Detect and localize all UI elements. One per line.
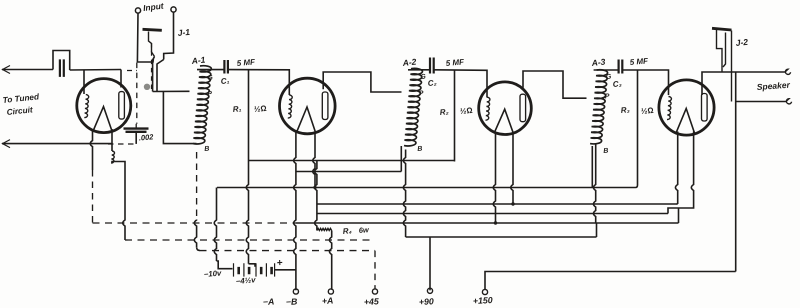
- svg-text:+A: +A: [322, 295, 334, 306]
- svg-text:½Ω: ½Ω: [253, 104, 267, 114]
- wire B7 right up: [596, 223, 598, 237]
- wire V4 plate up: [702, 72, 713, 95]
- wire rheostat to drop: [112, 162, 125, 165]
- capacitor .002 plates: [124, 129, 149, 132]
- svg-text:P: P: [207, 91, 213, 98]
- wire B+ down from jack: [735, 72, 737, 272]
- wire jack lead A: [153, 57, 155, 92]
- junction dot leg2V2-B3: [313, 186, 316, 189]
- svg-text:C₃: C₃: [612, 79, 622, 89]
- wire battery left bend: [217, 261, 233, 269]
- wire input2 down: [164, 12, 174, 60]
- svg-text:B: B: [603, 148, 609, 155]
- wire V4 leg1 end: [676, 203, 678, 205]
- wire speaker bottom: [736, 101, 787, 103]
- speaker terminal 2: [786, 99, 792, 104]
- wire antenna line: [2, 69, 53, 71]
- wire jack to A1 P: [153, 90, 190, 92]
- svg-text:5 MF: 5 MF: [629, 56, 649, 67]
- bus B7 B+90: [406, 236, 597, 238]
- bus B6 solid part: [296, 222, 679, 224]
- wire grid drop: [83, 70, 85, 94]
- bus S1 filament: [249, 160, 455, 162]
- wire V1 leg1: [90, 129, 92, 170]
- wire V2 leg2: [313, 132, 315, 188]
- svg-text:6w: 6w: [358, 225, 370, 235]
- wire B6 end up: [678, 209, 680, 224]
- wire A2 primary drop: [400, 146, 402, 172]
- wire A3 top to C3: [594, 69, 619, 71]
- wire battery left feeder: [214, 188, 216, 262]
- grid of V1: [84, 95, 88, 118]
- capacitor C3 plates: [619, 60, 623, 74]
- wire A1 B dashed drop: [196, 152, 198, 220]
- capacitor box left side: [53, 51, 70, 71]
- tube circle V1: [77, 79, 131, 133]
- wire A2 top to C2: [408, 69, 430, 71]
- dashed wire .002 to leg: [108, 143, 136, 145]
- arrow left on antenna line: [3, 66, 11, 74]
- dashed D2: [125, 239, 375, 241]
- jack J-1 spring contact: [149, 32, 155, 57]
- dashed D3 +45 feed: [200, 250, 376, 252]
- svg-text:½Ω: ½Ω: [640, 106, 654, 116]
- wire input1 down: [137, 13, 153, 62]
- wire C3 to V4 grid: [622, 70, 668, 95]
- svg-text:B: B: [204, 146, 210, 153]
- jack J-1 dashed guide: [151, 43, 153, 93]
- wire A3 primary drop: [591, 146, 593, 188]
- capacitor C1 plates: [224, 60, 228, 74]
- svg-text:5 MF: 5 MF: [445, 57, 465, 68]
- wire -B drop battery plus: [276, 269, 296, 271]
- svg-text:G: G: [420, 73, 427, 80]
- wire A1B corner into D3: [197, 247, 200, 250]
- wire C1 to V2 grid: [228, 70, 289, 95]
- svg-text:Speaker: Speaker: [756, 80, 790, 92]
- terminal -A-B: [293, 289, 298, 294]
- wire V1 leg2: [111, 129, 113, 151]
- plate of V3: [520, 94, 526, 122]
- wire stub to .002: [135, 124, 137, 129]
- junction dot leg2V3-B4: [511, 202, 514, 205]
- svg-text:R₄: R₄: [342, 226, 352, 236]
- plate of V1: [119, 92, 125, 120]
- bus S2: [296, 171, 401, 173]
- jack J-2 spring contact: [717, 30, 723, 72]
- jack J-1 top bar: [143, 29, 162, 30]
- wire V1 leg1 dashed drop: [92, 170, 94, 223]
- wire .002 stub: [135, 132, 137, 144]
- dashed shield stub: [127, 70, 137, 72]
- svg-text:J-1: J-1: [177, 27, 191, 38]
- battery plus lead: [275, 269, 276, 271]
- resistor R2 wire: [454, 70, 456, 162]
- resistor R4: [317, 228, 332, 230]
- wire V3 leg1: [493, 132, 495, 223]
- wire +A drop: [329, 231, 331, 290]
- wire drop to A1 B: [163, 92, 196, 144]
- plate of V4: [702, 94, 708, 122]
- svg-text:C₁: C₁: [220, 76, 230, 86]
- battery long plates: [234, 263, 275, 276]
- terminal +150: [482, 289, 487, 294]
- bus B3 grid return: [217, 187, 636, 189]
- wire C2 to V3 grid: [434, 70, 487, 98]
- wire +150 up: [485, 272, 736, 290]
- svg-text:Circuit: Circuit: [6, 105, 33, 117]
- wire V4 leg2: [668, 132, 694, 214]
- svg-text:P: P: [605, 93, 611, 100]
- filament of V3: [495, 109, 514, 132]
- svg-text:+90: +90: [419, 296, 435, 307]
- svg-text:Input: Input: [143, 0, 166, 13]
- capacitor C2 plates: [430, 58, 434, 74]
- tube circle V3: [479, 82, 532, 135]
- rheostat on V1 filament: [111, 151, 114, 163]
- svg-text:G: G: [207, 74, 214, 81]
- plate of V2: [322, 92, 328, 120]
- svg-text:G: G: [606, 73, 613, 80]
- input terminal 1: [135, 8, 140, 13]
- svg-text:P: P: [419, 90, 425, 97]
- wire lower left line: [2, 143, 112, 145]
- dashed shield vertical: [136, 63, 138, 124]
- svg-text:A-3: A-3: [590, 57, 606, 69]
- resistor R1 wire: [246, 70, 248, 264]
- resistor R3 wire: [636, 70, 638, 188]
- svg-text:½Ω: ½Ω: [459, 106, 473, 116]
- svg-text:+150: +150: [473, 295, 493, 306]
- svg-text:5 MF: 5 MF: [236, 57, 256, 68]
- wire R1 to bias tap: [249, 264, 256, 267]
- wire V3 plate up: [523, 71, 587, 98]
- svg-text:R₂: R₂: [439, 107, 449, 117]
- grid of V2: [288, 95, 292, 118]
- svg-text:−4½v: −4½v: [235, 275, 256, 286]
- svg-text:−A: −A: [263, 296, 275, 307]
- filament of V4: [676, 109, 695, 134]
- filament of V1: [93, 107, 112, 131]
- wire V2 leg1 to -B: [294, 132, 296, 291]
- bus B4 filament: [317, 203, 676, 205]
- jack J-2 top bar: [712, 28, 732, 30]
- wire V4 leg1: [675, 132, 677, 205]
- junction dot leg1V3-B6: [494, 221, 497, 224]
- wire A2 B drop: [403, 150, 405, 238]
- coil A-2: [404, 68, 422, 146]
- wire A1 top to C1: [197, 69, 224, 71]
- svg-text:−10v: −10v: [203, 268, 222, 279]
- svg-text:.002: .002: [138, 132, 154, 142]
- svg-text:+: +: [277, 258, 284, 269]
- terminal +A: [328, 289, 333, 294]
- svg-text:C₂: C₂: [427, 78, 437, 88]
- wire A3 B drop: [593, 144, 595, 223]
- jack J-2 sleeve: [731, 31, 733, 102]
- svg-text:A-2: A-2: [401, 57, 417, 69]
- speaker terminal 1: [785, 69, 791, 74]
- grid of V4: [667, 97, 671, 120]
- svg-text:B: B: [417, 146, 423, 153]
- wire drop x125: [123, 164, 125, 240]
- coil A-3: [590, 70, 608, 144]
- arrow left lower line: [3, 140, 11, 148]
- grid of V3: [486, 97, 490, 120]
- svg-text:J-2: J-2: [735, 37, 749, 48]
- bus B5 filament: [317, 213, 668, 215]
- svg-text:−B: −B: [286, 296, 299, 307]
- wire V3 leg2: [511, 132, 513, 204]
- wire V1 plate to top: [120, 70, 122, 88]
- tube circle V2: [280, 78, 336, 134]
- svg-text:To Tuned: To Tuned: [2, 92, 40, 105]
- jack J-2 second contact: [723, 33, 726, 68]
- svg-text:R₃: R₃: [620, 105, 630, 115]
- wire cap to grid corner: [70, 69, 121, 72]
- bus B6 dashed part: [93, 222, 297, 224]
- coil A-1: [193, 66, 211, 144]
- wire +90 drop: [429, 237, 431, 290]
- filament of V2: [297, 107, 316, 132]
- input terminal 2: [171, 7, 176, 12]
- svg-text:A-1: A-1: [190, 55, 206, 67]
- tube circle V4: [659, 80, 714, 135]
- capacitor C-ant plates: [60, 59, 64, 77]
- wire +45 dashed drop: [374, 251, 376, 290]
- svg-text:+45: +45: [364, 296, 380, 307]
- wire V2 plate up: [323, 72, 401, 92]
- terminal +45: [372, 289, 377, 294]
- svg-text:R₁: R₁: [232, 104, 242, 114]
- wire R4 left drop: [315, 161, 317, 231]
- terminal +90: [427, 288, 432, 293]
- wire A1 B drop solid: [194, 220, 196, 248]
- wire jack lead B: [157, 60, 164, 92]
- wire speaker top: [713, 71, 786, 73]
- battery short plates: [239, 267, 272, 274]
- grommet dot: [144, 84, 150, 90]
